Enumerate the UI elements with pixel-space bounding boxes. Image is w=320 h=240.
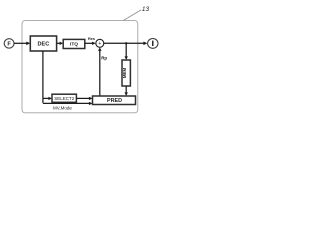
svg-text:DEC: DEC (37, 42, 49, 48)
svg-text:PRED: PRED (107, 98, 122, 104)
svg-text:13: 13 (142, 6, 150, 13)
svg-text:+: + (98, 41, 101, 47)
svg-text:ITQ: ITQ (70, 42, 78, 48)
svg-text:Res: Res (88, 37, 95, 41)
svg-text:MV,Mode: MV,Mode (53, 106, 72, 111)
svg-text:MEM: MEM (122, 68, 127, 79)
svg-text:Rp: Rp (101, 56, 107, 61)
svg-text:F: F (7, 42, 11, 48)
svg-text:SELECT2: SELECT2 (54, 96, 75, 101)
